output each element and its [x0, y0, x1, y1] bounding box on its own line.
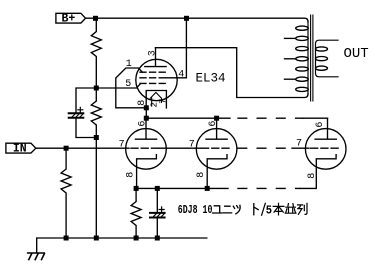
6DJ8 tube V2 envelope — [196, 129, 237, 170]
svg-text:8: 8 — [137, 100, 148, 106]
grid bus dashed continuation — [238, 147, 292, 149]
EL34 plate — [145, 48, 166, 67]
primary tap stub 2 — [285, 58, 296, 60]
wire node B to ground rail (crosses IN line, no dot) — [95, 138, 97, 239]
grid bus V1 to V2 — [159, 147, 202, 149]
resistor R2 — [91, 88, 101, 138]
node anode bus / V2 plate — [214, 116, 219, 121]
transformer T1 primary winding — [296, 22, 309, 94]
svg-text:6: 6 — [208, 121, 219, 127]
primary tap stub 3 — [285, 78, 296, 80]
transformer secondary winding — [316, 40, 339, 77]
wire node A to capacitor C1 — [76, 88, 96, 112]
caption kanji hon — [273, 203, 284, 215]
V2 plate — [206, 118, 227, 139]
heater filament — [150, 92, 161, 105]
IN flag — [6, 143, 36, 153]
wire node A to EL34 grid pin 5 — [96, 84, 140, 88]
caption kanji nami — [285, 204, 296, 214]
V2 cathode — [207, 155, 227, 189]
V3 plate — [315, 118, 336, 139]
anode bus solid to V3 plate — [303, 117, 328, 119]
6DJ8 tube V1 envelope — [126, 129, 167, 170]
svg-text:B+: B+ — [62, 12, 76, 25]
anode bus solid EL34 cathode to V2 — [146, 117, 230, 119]
svg-text:6: 6 — [138, 121, 149, 127]
node rail/C2 — [155, 236, 160, 241]
resistor R1 — [91, 18, 101, 88]
ground rail — [37, 238, 207, 253]
wire B+ to transformer primary top — [86, 18, 309, 22]
V1 grid dashes — [131, 147, 159, 149]
svg-text:8: 8 — [125, 172, 136, 178]
svg-text:5: 5 — [125, 79, 131, 90]
6DJ8 tube V3 envelope — [305, 129, 346, 170]
B+ flag — [56, 13, 86, 23]
svg-text:7: 7 — [159, 99, 169, 104]
V3 cathode — [300, 155, 336, 189]
resistor R4 — [131, 188, 141, 238]
V1 plate — [135, 118, 156, 139]
EL34 g3 dashed grid — [140, 71, 166, 73]
svg-text:7: 7 — [189, 139, 195, 150]
node rail/R3 — [64, 236, 69, 241]
EL34 g1 dashed grid — [140, 82, 166, 84]
wire pin1 g3 lead to cathode node — [116, 68, 147, 108]
ground symbol — [28, 253, 45, 260]
svg-text:5: 5 — [266, 205, 272, 218]
node rail/R2 chain — [94, 236, 99, 241]
V3 grid dashes — [311, 147, 339, 149]
svg-text:IN: IN — [13, 143, 27, 156]
node cathode rail / C2 — [155, 186, 160, 191]
primary tap stub 1 — [285, 37, 296, 39]
V2 grid dashes — [202, 147, 230, 149]
node rail/R4 — [134, 236, 139, 241]
wire C2 top lead — [156, 188, 158, 211]
svg-text:4: 4 — [178, 70, 184, 81]
cathode bus V1 to V2 — [137, 187, 228, 189]
svg-text:8: 8 — [196, 172, 207, 178]
node junction B+/R1 — [93, 16, 98, 21]
node anode bus / V1 plate — [144, 116, 149, 121]
svg-text:8: 8 — [307, 173, 318, 179]
svg-text:6: 6 — [315, 122, 326, 128]
caption katakana to — [254, 204, 258, 215]
node B (cap bottom node) — [94, 135, 99, 140]
capacitor C1 (electrolytic) — [69, 107, 84, 118]
svg-text:1: 1 — [126, 59, 132, 70]
wire C1 to node B — [76, 119, 96, 138]
node junction B+/g2 riser — [184, 16, 189, 21]
svg-text:3: 3 — [147, 50, 158, 56]
EL34 g2 dashed grid — [140, 77, 166, 79]
node A (grid divider node) — [94, 86, 99, 91]
capacitor C2 (electrolytic) — [150, 207, 165, 218]
svg-text:7: 7 — [296, 138, 302, 149]
wire EL34 cathode down to anode bus — [145, 108, 147, 118]
wire pin4 g2 to B+ — [166, 18, 186, 78]
node cathode rail / V2 cathode — [205, 186, 210, 191]
op-amp? no: EL34 tube envelope U1 — [136, 59, 177, 100]
caption katakana yu — [213, 206, 222, 213]
cathode bus dashed continuation — [238, 187, 300, 189]
wire IN grid bus (solid segments) — [36, 147, 129, 149]
svg-text:EL34: EL34 — [196, 72, 226, 86]
svg-text:OUT: OUT — [344, 46, 369, 62]
V3 grid entry — [292, 147, 309, 149]
wire C2 bottom lead — [156, 219, 158, 238]
caption kanji retsu — [298, 203, 308, 214]
caption slash — [262, 203, 266, 215]
wire EL34 plate to transformer primary bottom — [156, 48, 309, 98]
node cathode rail / V1 cathode — [134, 186, 139, 191]
caption katakana ni — [223, 206, 232, 213]
EL34 cathode staple with heater — [146, 91, 166, 109]
node IN/R3 — [64, 146, 69, 151]
transformer core — [311, 15, 313, 101]
caption katakana small tsu — [233, 205, 240, 214]
svg-text:7: 7 — [119, 139, 125, 150]
svg-text:6DJ8 10: 6DJ8 10 — [178, 204, 213, 217]
anode bus dashed continuation — [238, 117, 303, 119]
V1 cathode — [137, 155, 157, 189]
resistor R3 — [61, 148, 71, 238]
node cathode/g3 junction — [144, 105, 149, 110]
